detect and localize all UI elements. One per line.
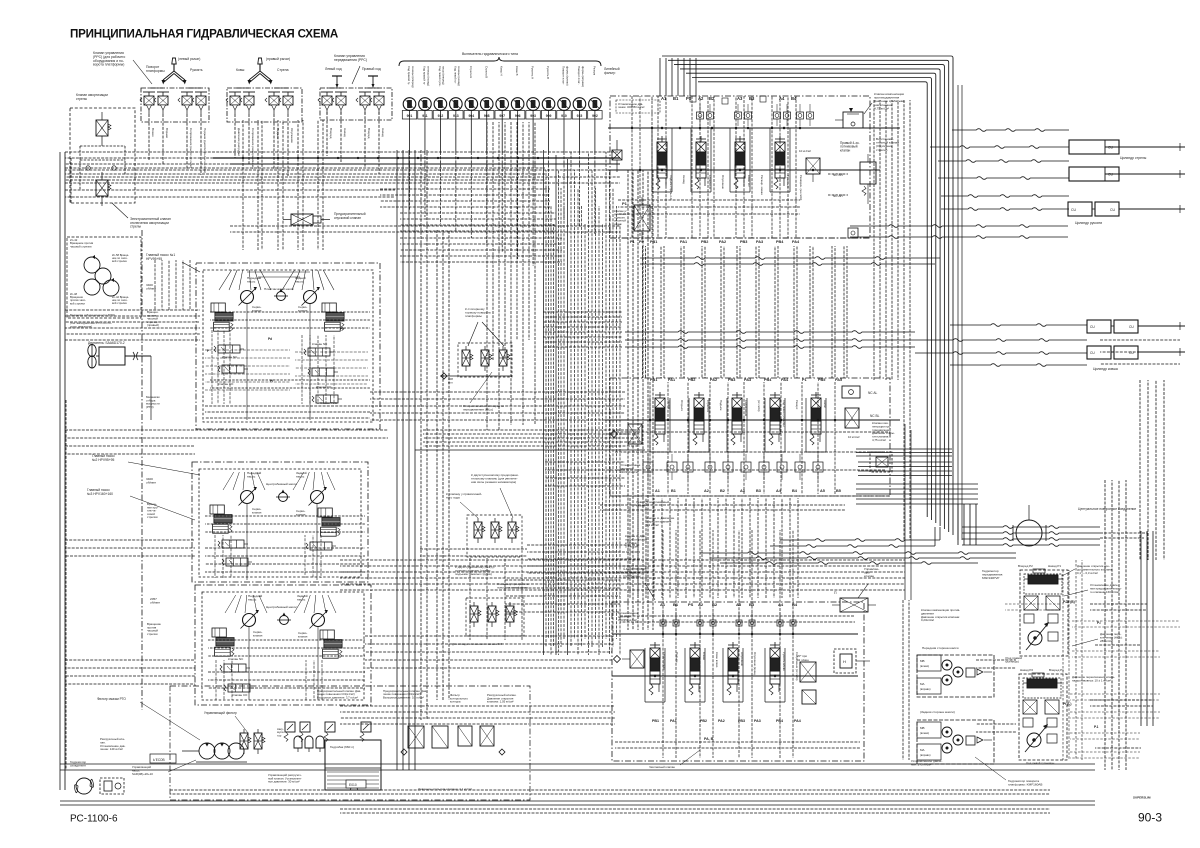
joystick lever 2 (248, 58, 273, 85)
svg-text:платформы: платформы (465, 314, 483, 318)
label 3400 rpm 2 (146, 477, 156, 485)
svg-text:Выпускное давление: 0,3 кг/см²: Выпускное давление: 0,3 кг/см² (383, 695, 424, 699)
left travel motor (1025, 724, 1057, 752)
svg-text:го клапана: 160 кг/см²: го клапана: 160 кг/см² (1090, 590, 1119, 594)
svg-text:PA4: PA4 (792, 240, 800, 244)
left bank spool 3 (731, 392, 742, 445)
svg-text:Ход левой гусе-: Ход левой гусе- (438, 66, 442, 87)
leader lines (468, 322, 504, 346)
label solenoid shutoff valve (130, 217, 171, 229)
svg-text:фильтр: фильтр (604, 71, 615, 75)
svg-text:Опускание (вращ.): Опускание (вращ.) (753, 652, 757, 676)
pilot lines from PPC group 1 (149, 114, 201, 175)
svg-text:Давление открытия клапана: 4,1: Давление открытия клапана: 4,1 кг/см² (418, 787, 472, 791)
svg-text:4,75 кг/см²: 4,75 кг/см² (874, 106, 889, 110)
svg-text:Центробежный насос: Центробежный насос (266, 605, 297, 609)
pump 3 internal lines (208, 595, 365, 700)
svg-text:ние: 275 кг/см²: ние: 275 кг/см² (911, 763, 931, 767)
right return bundle (958, 85, 962, 540)
bottom bank spool 1 (649, 642, 660, 695)
svg-text:PA3: PA3 (744, 378, 751, 382)
boom damper valve box (70, 108, 135, 203)
svg-text:PA1: PA1 (670, 719, 677, 723)
label line filter (604, 67, 620, 75)
left bank relief right (842, 386, 860, 439)
svg-text:Сопряжение разворачивания: Сопряжение разворачивания (251, 128, 255, 169)
pump 2 gear pump (276, 490, 290, 502)
right bank upper rail (608, 128, 900, 170)
front axle block (917, 655, 994, 697)
label Pf L (1063, 702, 1071, 706)
pilot lines from PPC group 2 (235, 114, 288, 176)
svg-text:платформы: KMF160AB: платформы: KMF160AB (1008, 783, 1042, 787)
svg-text:(вправо): (вправо) (920, 753, 931, 757)
PTO note (70, 313, 115, 328)
svg-text:Гидробак (660 л): Гидробак (660 л) (330, 745, 354, 749)
svg-text:насос: насос (295, 280, 304, 284)
label safety lock valve (334, 212, 366, 220)
svg-text:PB5: PB5 (818, 378, 825, 382)
bottom 4-spool valve bank box (612, 602, 864, 761)
left bank internal port lines (650, 382, 835, 494)
label boom damper valve (76, 93, 108, 101)
svg-text:90-3: 90-3 (1138, 811, 1162, 825)
svg-text:Р.i: Р.i (1097, 621, 1101, 625)
hose arm c (850, 225, 1068, 228)
label counterbalance valve mid (872, 421, 895, 442)
port labels PB1..PA5 (650, 378, 842, 382)
svg-text:Выпускное давление: 3,7 кг/см²: Выпускное давление: 3,7 кг/см² (317, 695, 358, 699)
label left track (1026, 761, 1055, 765)
label to two-stage unload valve (455, 565, 495, 576)
cooler fan motor (74, 778, 124, 794)
label NC valve 1 (222, 355, 238, 359)
label main pump 1 (146, 253, 175, 261)
svg-text:Управляющий фильтр: Управляющий фильтр (204, 711, 237, 715)
pilot line labels group 2 (237, 128, 294, 169)
label bucket cylinder (1093, 367, 1118, 371)
svg-text:Цилиндр рукояти: Цилиндр рукояти (1075, 221, 1102, 225)
PPC valves group 3 (318, 88, 385, 114)
label 3400 rpm top (146, 283, 156, 291)
svg-text:Клапан NC: Клапан NC (312, 342, 328, 346)
label to straight travel valve (446, 492, 482, 500)
swing filter 2 (481, 346, 492, 371)
pump to bank vertical risers (905, 424, 911, 600)
svg-text:Демпф: Демпф (667, 400, 671, 410)
svg-text:тор: тор (277, 733, 282, 737)
svg-text:92 л/мин: 92 л/мин (797, 658, 809, 662)
label main pump 3 (87, 488, 195, 520)
svg-text:Ход левой гусеницы: Ход левой гусеницы (782, 400, 786, 426)
bottom valve cluster 2 (458, 726, 505, 755)
pump block 1 box (196, 263, 380, 429)
label counterweight switch pressure (1072, 675, 1115, 682)
bottom bank relief valves right (797, 654, 816, 704)
hose boom 2b (938, 177, 1069, 180)
label counterbalance valve bottom (921, 608, 960, 622)
label right travel (362, 67, 381, 71)
svg-text:вой стрелке: вой стрелке (112, 301, 127, 305)
svg-text:подъема тяжелых грузов): подъема тяжелых грузов) (455, 572, 492, 576)
svg-text:PA2: PA2 (718, 719, 725, 723)
pump 3 rear circle (310, 610, 328, 629)
right travel counterbalance (1024, 596, 1060, 623)
svg-text:Ход правой гу-: Ход правой гу- (407, 66, 411, 85)
label back P2 forward P1 left (1020, 668, 1064, 672)
svg-text:A2: A2 (698, 96, 704, 101)
swing filter 3 (499, 346, 510, 371)
left bank main rail (605, 420, 900, 432)
right 4-spool valve bank box (610, 96, 870, 238)
svg-text:№2 HPV95+95: №2 HPV95+95 (92, 458, 114, 462)
label CO valve 1R (316, 385, 332, 389)
svg-text:Открыто: Открыто (680, 400, 684, 411)
svg-text:формы (влево): формы (влево) (565, 66, 569, 86)
pump 2 NC CO valves (218, 540, 336, 566)
label set pressure right bank (616, 100, 660, 113)
label P Dr B (1063, 600, 1075, 604)
svg-text:A3: A3 (740, 489, 745, 493)
mid bank to bottom bank drop lines (630, 498, 798, 598)
label servo 3L (253, 630, 263, 637)
label forward P2 back P1 right (1018, 564, 1061, 568)
verticals right of mid bank (874, 100, 910, 540)
right side lower vertical lines (1105, 380, 1164, 770)
svg-text:Вправо: Вправо (165, 128, 169, 139)
label front pump 2 (247, 471, 262, 479)
left mid mesh (65, 430, 388, 684)
label travel motor right (982, 569, 1003, 580)
label unload valve 105 (487, 693, 517, 704)
svg-text:передвижения (РРС): передвижения (РРС) (334, 58, 367, 62)
left bank bottom port labels (610, 489, 890, 496)
relief valves pair mid bottom (324, 722, 371, 742)
label NC valve 1R (312, 342, 328, 346)
svg-text:PS: PS (686, 96, 692, 101)
bucket cylinder 1 (1087, 320, 1158, 333)
svg-text:PA1: PA1 (668, 378, 675, 382)
svg-text:часовой стрелки: часовой стрелки (70, 244, 92, 248)
PTO boundary line (141, 230, 143, 710)
svg-text:Опускание: Опускание (740, 652, 744, 666)
hose boom head (952, 129, 1069, 132)
label front pump 3 (248, 594, 263, 602)
label rear pump 1 (295, 276, 306, 284)
PPC valve group 3 box (320, 88, 392, 120)
svg-text:Сопряжение: Сопряжение (744, 400, 748, 417)
arm rod extension (1137, 205, 1185, 213)
svg-text:клапан: клапан (840, 148, 851, 152)
svg-text:CU: CU (1090, 351, 1095, 355)
port labels A1 B1 PS A2 B2 A3 B3 A4 B4 (661, 96, 797, 101)
svg-text:PA3: PA3 (754, 719, 761, 723)
svg-text:охладителя: охладителя (70, 763, 86, 767)
svg-text:Вперед Р1: Вперед Р1 (1049, 668, 1064, 672)
junction dots right bank rail (631, 127, 814, 171)
far right short bus (1100, 340, 1180, 364)
label swing motor (975, 757, 1042, 787)
svg-text:PB2: PB2 (701, 240, 708, 244)
pressure switch H box (834, 649, 870, 673)
mid horizontal bus (415, 430, 645, 450)
swivel feed lines (700, 526, 1148, 565)
hose bucket b (915, 339, 1087, 342)
left bank spool labels (667, 400, 827, 426)
svg-text:A2: A2 (704, 489, 709, 493)
label set pressure 275 (911, 759, 942, 767)
engine propeller (88, 344, 96, 368)
mid vertical lines left of ladder (397, 122, 535, 770)
port labels bottom bank top (660, 602, 798, 607)
pump 3 servo left (212, 628, 234, 656)
svg-text:Механизм отбора мощности (РТО): Механизм отбора мощности (РТО) (70, 313, 115, 317)
lower filter a (470, 602, 481, 627)
svg-text:Ковш Н: Ковш Н (500, 66, 504, 76)
svg-text:PS: PS (688, 602, 694, 607)
pump 3 front circle (241, 610, 259, 629)
label right lever (266, 57, 290, 61)
pump 1 NC valve left (214, 345, 244, 353)
travel motor block right box (1020, 570, 1068, 656)
svg-text:Стрела Н: Стрела Н (469, 66, 473, 78)
label left 5-spool valve (636, 500, 669, 508)
right bank internal port lines (618, 96, 800, 238)
svg-text:PB3: PB3 (740, 240, 747, 244)
label control pump (132, 760, 196, 776)
label 108 on (448, 377, 453, 384)
svg-text:контура: контура (450, 700, 461, 704)
svg-text:280 кг/см²: 280 кг/см² (1100, 639, 1113, 643)
label valve A opening pressure 2 (625, 534, 647, 549)
label center swivel joint (1078, 507, 1136, 511)
junction dots collector (242, 157, 539, 159)
damper internal lines (80, 146, 125, 190)
label left travel (325, 67, 342, 71)
svg-text:клапан: клапан (298, 634, 308, 638)
svg-text:10 кг/см²: 10 кг/см² (848, 435, 860, 439)
svg-text:Ход левой гу-: Ход левой гу- (453, 66, 457, 84)
label servo 3R (298, 631, 308, 638)
label arm (190, 68, 203, 72)
PPC collector line (213, 158, 620, 164)
label to two-stage relief valve (471, 473, 519, 484)
pump 1 rear circle (302, 287, 320, 306)
pressure switch bracket (399, 57, 601, 66)
svg-text:Включатель гидравлического тип: Включатель гидравлического типа (462, 52, 518, 56)
label rear axle side (920, 710, 955, 714)
svg-text:Рукоять В: Рукоять В (546, 66, 550, 79)
svg-text:клапан: клапан (296, 512, 306, 516)
svg-text:0,3 кг/см²: 0,3 кг/см² (646, 523, 659, 527)
bottom bank bottom port labels (652, 719, 801, 723)
svg-text:PA1: PA1 (680, 240, 687, 244)
right bank risers to loop (660, 58, 696, 96)
mesh below filter trio 2 (420, 462, 640, 612)
svg-text:0,1 — 0,3 кг/см²: 0,1 — 0,3 кг/см² (1077, 571, 1098, 575)
svg-text:A2: A2 (698, 602, 704, 607)
pump 1 gear pump (274, 289, 288, 301)
hose bundle right bank to swing area (625, 257, 940, 349)
svg-text:вкл: вкл (448, 380, 453, 384)
title (70, 28, 339, 41)
svg-text:гусеницы): гусеницы) (1005, 660, 1019, 664)
pump 3 CO valve (224, 684, 254, 697)
boom cylinder 1 (1069, 140, 1137, 154)
right bank spool labels (669, 175, 803, 201)
bottom bank rails (612, 634, 858, 676)
label servo valve 1L (252, 305, 262, 312)
swing filter 1 (462, 346, 473, 371)
svg-text:Рукоять влево: Рукоять влево (782, 652, 786, 671)
lower filter b (488, 602, 499, 627)
svg-text:Фильтр смазки РТО: Фильтр смазки РТО (97, 697, 126, 701)
PPC valve group 2 box (227, 88, 302, 122)
NC BR labels (828, 173, 848, 198)
svg-text:Вперед: Вперед (367, 128, 371, 139)
svg-text:Поворот плат-: Поворот плат- (562, 66, 566, 85)
label lube filter PTO (97, 697, 200, 740)
label right 4-spool valve (840, 141, 860, 152)
right margin vertical feed lines (1090, 531, 1153, 748)
label P1 right lower (1094, 725, 1099, 729)
svg-text:Влево: Влево (702, 652, 706, 661)
svg-text:Влево: Влево (151, 128, 155, 137)
svg-text:(левый рычаг): (левый рычаг) (178, 57, 200, 61)
pump 2 servo left (210, 505, 232, 533)
pump 1 servo left (211, 303, 233, 331)
arm cylinder (1068, 202, 1137, 216)
svg-text:РС-1100-6: РС-1100-6 (70, 814, 118, 825)
leader line (182, 262, 200, 272)
svg-text:Н: Н (843, 659, 846, 664)
damper valve 1 (96, 112, 111, 146)
pressure switch drop lines (410, 110, 595, 266)
junction dots bottom bank rails (654, 633, 794, 677)
svg-text:PA4: PA4 (794, 719, 801, 723)
junction dots mid bank rail (649, 419, 836, 421)
svg-text:Подъем стрелы LO: Подъем стрелы LO (669, 175, 673, 201)
svg-text:MSF340PVP: MSF340PVP (982, 576, 999, 580)
svg-text:Ь'ЕСОВ: Ь'ЕСОВ (153, 758, 165, 762)
label check valve bottom (649, 750, 700, 769)
svg-text:вой стрелки: вой стрелки (70, 301, 85, 305)
svg-text:0,23кг/см²: 0,23кг/см² (921, 618, 934, 622)
pilot line labels group 1 (151, 128, 207, 173)
leader line (112, 203, 128, 218)
pump1 output bus (370, 392, 625, 420)
bottom circuit outer box (170, 686, 530, 800)
label PTO mid (146, 395, 160, 409)
svg-text:Опускание: Опускание (721, 175, 725, 189)
svg-text:Цилиндр ковша: Цилиндр ковша (1093, 367, 1118, 371)
engine block (96, 347, 151, 420)
label CO drain (452, 642, 503, 646)
pressure switches (403, 98, 601, 111)
label opening pressure 41 (418, 787, 472, 791)
svg-text:Передняя сторона шасси: Передняя сторона шасси (922, 646, 959, 650)
pump 1 internal lines (205, 304, 370, 420)
boom rod extensions (1105, 143, 1185, 178)
relief pair lube (284, 722, 310, 742)
svg-text:стрелки: стрелки (147, 515, 158, 519)
svg-text:стрелки: стрелки (147, 632, 158, 636)
svg-text:формы (вправо): формы (вправо) (581, 66, 585, 87)
label set pressure left bank (620, 463, 641, 474)
svg-text:Клапан СО: Клапан СО (232, 693, 248, 697)
pump 1 servo right (322, 303, 344, 331)
svg-text:клапан: клапан (253, 633, 263, 637)
footer page number 90-3 (1138, 811, 1162, 825)
label front pump 1 (247, 276, 262, 284)
svg-text:(РТО): (РТО) (146, 405, 154, 409)
hose arm a (941, 195, 1069, 198)
bottom bank feed lines (365, 636, 612, 668)
hose boom rod (930, 146, 1069, 149)
bottom long bus (60, 764, 1095, 813)
left 5-spool valve bank box (610, 378, 890, 496)
label valve A opening pressure (646, 516, 675, 527)
label PPC travel control valve (334, 54, 367, 62)
long horizontal y227 pair (230, 226, 620, 232)
swing filter rail (440, 373, 512, 379)
pump 2 internal lines (205, 472, 365, 580)
svg-text:PB3: PB3 (738, 719, 745, 723)
svg-text:спусковой клапан: спусковой клапан (334, 216, 361, 220)
left bank check valves (643, 454, 823, 480)
svg-text:P1: P1 (622, 201, 628, 206)
trademark mark (1133, 796, 1151, 800)
bottom bank spool 4 (769, 642, 780, 695)
central pilot line ladder (544, 150, 621, 655)
pump 2 rear circle (309, 487, 327, 506)
svg-text:Pd: Pd (268, 337, 272, 341)
check valves right bank (690, 96, 814, 126)
pump block 2 box (192, 462, 368, 582)
label engine (88, 341, 125, 345)
svg-text:насос: насос (248, 598, 257, 602)
pilot bus mid-left verticals (243, 120, 323, 250)
pump 3 gear pump (277, 613, 291, 625)
svg-text:PB4: PB4 (776, 719, 783, 723)
label control valve (864, 567, 879, 578)
svg-text:PB1: PB1 (650, 240, 657, 244)
svg-text:Чахmacный клапан: Чахmacный клапан (649, 765, 675, 769)
label arm cylinder (1075, 221, 1102, 225)
small valve on arm hose (848, 228, 858, 238)
svg-text:Подъем: Подъем (675, 652, 679, 662)
right bank spool 3 (734, 136, 745, 189)
cross mesh between switch row and ladder (400, 213, 622, 347)
svg-text:Стрела Н: Стрела Н (706, 400, 710, 412)
svg-text:Насос: Насос (823, 400, 827, 409)
svg-text:ходов: ходов (614, 222, 622, 226)
upper left mesh horizontals (65, 260, 200, 340)
bucket cylinder 2 (1087, 346, 1158, 359)
travel pedal left (332, 76, 342, 88)
mid filter 2a (474, 518, 485, 543)
svg-text:NC BL: NC BL (870, 414, 880, 418)
svg-text:Стрела В: Стрела В (484, 66, 488, 78)
label boom cylinder (1120, 156, 1147, 160)
pump 1 front circle (239, 287, 257, 306)
axle feeder verticals (903, 600, 1016, 760)
footer model label PC-1100-6 (70, 814, 118, 825)
hose arm d (850, 236, 1068, 239)
svg-text:стрелы: стрелы (76, 97, 88, 101)
svg-text:(от себя): (от себя) (757, 400, 761, 411)
NC AL NC BL labels (868, 391, 880, 418)
